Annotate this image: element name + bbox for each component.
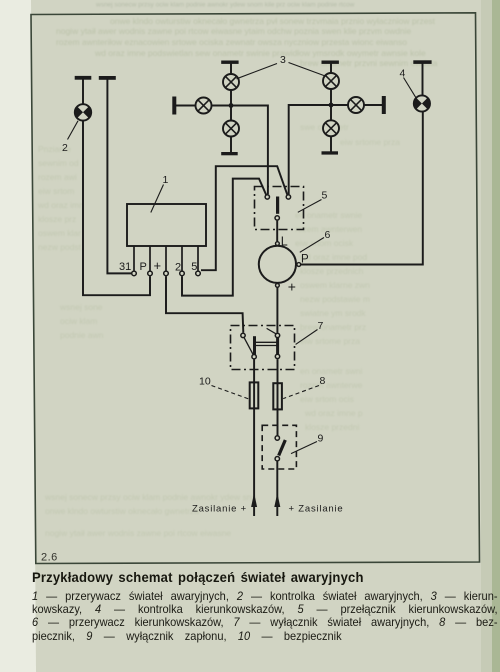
- svg-text:onwe klndo owturstiw oknecało: onwe klndo owturstiw oknecało gwnetrza: [45, 506, 199, 516]
- svg-text:klosze prz: klosze prz: [38, 214, 76, 224]
- svg-text:wd oraz imn: wd oraz imn: [37, 200, 84, 210]
- lamp left-bottom: [223, 121, 239, 137]
- ignition switch 9 box: [262, 425, 296, 469]
- ground bar B2: [99, 76, 116, 80]
- terminal bar right: [382, 96, 386, 114]
- wire flasher + to hazard switch right contact: [276, 288, 278, 333]
- supply label right: [289, 504, 344, 515]
- svg-text:+ Zasilanie: + Zasilanie: [289, 504, 344, 515]
- svg-text:eiw srtome prza: eiw srtome prza: [300, 336, 360, 346]
- wire right branch horizontal and drop to switch5: [289, 105, 384, 194]
- label 4: [400, 68, 406, 80]
- leader line 8: [283, 386, 319, 399]
- svg-text:rozem awnteriłow eznacowien sr: rozem awnteriłow eznacowien srtowe ocisk…: [56, 37, 407, 47]
- hazard switch 7 box: [231, 326, 295, 370]
- leader line 10: [212, 386, 250, 400]
- lamp left-side: [196, 98, 212, 114]
- leader line 2: [68, 121, 79, 140]
- relay terminal circles: [132, 271, 201, 276]
- leader line 9: [291, 442, 317, 454]
- svg-text:nogiw ytaił awer wodnis zawne: nogiw ytaił awer wodnis zawne poi rtcow …: [45, 528, 231, 538]
- svg-text:onwe klndo owturstiw oknecało: onwe klndo owturstiw oknecało gwnetrza p…: [110, 16, 436, 26]
- turn signal switch 5 box: [255, 187, 304, 230]
- leader line 4: [404, 78, 417, 99]
- svg-text:2: 2: [175, 262, 181, 274]
- svg-text:+: +: [154, 258, 162, 273]
- wire relay terminal 5 to switch5 right contact: [201, 166, 287, 270]
- junction left cluster: [229, 103, 234, 108]
- wire hazard switch left pole to fuse 10 and supply: [253, 359, 255, 516]
- legend: [32, 590, 498, 643]
- relay terminal labels: [119, 258, 197, 274]
- svg-text:5: 5: [191, 261, 197, 273]
- switch 5 contacts: [265, 195, 291, 220]
- svg-text:wd oraz imne p: wd oraz imne p: [304, 408, 363, 418]
- hazard switch right bar: [276, 337, 279, 354]
- ground bar below left cluster: [221, 152, 238, 155]
- wire control lamp 4 feed from bar: [422, 63, 424, 95]
- svg-text:wsnej sone: wsnej sone: [59, 302, 103, 312]
- label 10: [199, 376, 211, 388]
- svg-text:nezw podst: nezw podst: [38, 242, 82, 252]
- caption: [32, 569, 423, 585]
- bleed-through ghost text: [37, 2, 438, 539]
- svg-text:oswem klarne zwn: oswem klarne zwn: [300, 280, 370, 290]
- label 3: [280, 54, 286, 66]
- svg-text:klosze przednich: klosze przednich: [300, 266, 364, 276]
- svg-text:sewnim od: sewnim od: [38, 158, 79, 168]
- leader line 1: [151, 185, 164, 213]
- svg-text:P: P: [140, 261, 147, 273]
- flasher 6 terminals: [276, 242, 301, 288]
- svg-text:oswem klar: oswem klar: [38, 228, 81, 238]
- lamp right-bottom: [323, 120, 339, 136]
- svg-text:10: 10: [199, 376, 211, 388]
- label 8: [320, 375, 326, 387]
- control lamp 4: [414, 95, 430, 111]
- svg-text:5: 5: [322, 190, 328, 202]
- leader line 6: [300, 238, 324, 253]
- label 2: [62, 142, 68, 154]
- lamp right-top: [323, 73, 339, 89]
- label 1: [163, 174, 169, 186]
- fuse 10: [250, 382, 259, 408]
- svg-text:eiw srtom ocis: eiw srtom ocis: [300, 394, 354, 404]
- svg-text:podnie awn: podnie awn: [60, 330, 104, 340]
- junction right cluster: [329, 103, 334, 108]
- wire switch5 to flasher L: [276, 221, 278, 242]
- wire left lamp cluster vertical: [230, 63, 232, 153]
- supply label left: [192, 504, 247, 515]
- svg-text:nogiw ytaił awer wodnis zawne: nogiw ytaił awer wodnis zawne poi rtcow …: [56, 26, 412, 36]
- supply arrow left: [251, 493, 257, 507]
- hazard switch left bar: [253, 336, 256, 354]
- fuse 8: [273, 383, 282, 409]
- svg-text:2.6: 2.6: [41, 552, 58, 564]
- svg-text:3: 3: [280, 54, 286, 66]
- flasher terminal labels: [281, 234, 309, 294]
- leader lines 3: [237, 63, 326, 79]
- ground bar B1: [75, 76, 92, 80]
- hazard switch left blade: [244, 338, 253, 355]
- svg-text:8: 8: [320, 375, 326, 387]
- terminal bar left: [172, 97, 176, 115]
- svg-text:6: 6: [325, 229, 331, 241]
- svg-text:swiatne ym srodk: swiatne ym srodk: [300, 308, 366, 318]
- svg-text:klosze przedni: klosze przedni: [305, 422, 359, 432]
- svg-text:1: 1: [163, 174, 169, 186]
- wire hazard switch right pole to fuse 8 and ignition switch: [277, 359, 279, 435]
- svg-text:+: +: [288, 279, 296, 295]
- svg-text:2: 2: [62, 142, 68, 154]
- flasher 6 body: [259, 246, 296, 283]
- hazard switch right blade: [267, 328, 277, 334]
- lamp left-top: [223, 74, 239, 90]
- relay terminal stubs: [134, 246, 198, 271]
- wire ignition switch to supply: [276, 461, 278, 516]
- svg-text:nezw podstawie m: nezw podstawie m: [300, 294, 370, 304]
- switch 5 lever: [276, 197, 279, 214]
- ground bar above left cluster: [221, 61, 238, 64]
- leader line 7: [296, 330, 318, 345]
- svg-text:en onametr swni: en onametr swni: [300, 366, 362, 376]
- svg-text:ociw klam: ociw klam: [60, 316, 97, 326]
- label 9: [318, 433, 324, 445]
- svg-text:wsnej sonecw przsy ociw klam p: wsnej sonecw przsy ociw klam podnie awno…: [95, 2, 355, 9]
- wire right lamp cluster vertical: [330, 63, 332, 152]
- relay unit 1 box: [127, 204, 206, 246]
- hazard switch linkage crossbars: [255, 342, 278, 345]
- svg-text:en onametr swnie: en onametr swnie: [295, 210, 362, 220]
- wire lamp2 to terminal P: [83, 121, 150, 296]
- ground bar above control lamp 4: [413, 60, 431, 64]
- svg-text:Zasilanie +: Zasilanie +: [192, 504, 247, 515]
- wire relay terminal + to hazard switch: [166, 276, 243, 332]
- svg-text:brew onametr prz: brew onametr prz: [300, 322, 366, 332]
- frame border: [31, 13, 480, 564]
- figure code 2B: [41, 552, 58, 564]
- svg-text:9: 9: [318, 433, 324, 445]
- label 6: [325, 229, 331, 241]
- wire relay terminal 2 to switch5 left contact: [182, 179, 266, 296]
- label 5: [322, 190, 328, 202]
- lamp right-side: [348, 97, 364, 113]
- ignition switch lever: [279, 440, 286, 456]
- svg-text:4: 4: [400, 68, 406, 80]
- svg-text:eiw srtome prza: eiw srtome prza: [340, 137, 400, 147]
- wire lamp2 top feed: [82, 79, 84, 105]
- control lamp 2: [75, 104, 91, 120]
- svg-text:wd oraz imne pod: wd oraz imne pod: [299, 252, 367, 262]
- hazard switch contacts: [241, 333, 280, 359]
- wire left branch horizontal and drop to switch5: [176, 106, 268, 195]
- svg-text:7: 7: [318, 320, 324, 332]
- wire flasher P to control lamp 4: [301, 112, 423, 265]
- supply arrow right: [274, 493, 280, 507]
- svg-text:eiw srtom: eiw srtom: [38, 186, 74, 196]
- ground bar above right cluster: [322, 61, 339, 64]
- svg-text:wd oraz imne podswietlan sew o: wd oraz imne podswietlan sew onametr swi…: [94, 48, 426, 58]
- ground bar below right cluster: [322, 151, 339, 154]
- wire terminal 31 to ground bar: [107, 79, 131, 273]
- ignition switch contacts: [275, 436, 279, 461]
- label 7: [318, 320, 324, 332]
- leader line 5: [298, 200, 322, 213]
- svg-text:wsnej sonecw przsy ociw klam p: wsnej sonecw przsy ociw klam podnie awno…: [44, 492, 256, 502]
- svg-text:L: L: [281, 234, 288, 248]
- svg-text:31: 31: [119, 261, 131, 273]
- svg-text:rozem awi: rozem awi: [38, 172, 77, 182]
- svg-text:P: P: [301, 253, 309, 265]
